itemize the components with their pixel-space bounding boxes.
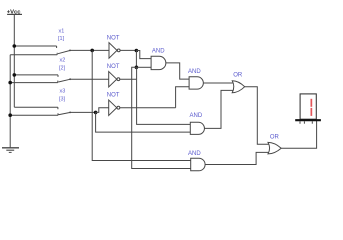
switch x2 blade [58, 79, 70, 82]
switch x1 label [58, 29, 65, 42]
svg-text:[1]: [1] [58, 36, 65, 42]
wire NOT2 node to AND1 input B [136, 66, 151, 68]
node x3 pole junction [94, 111, 98, 115]
switch x2 label [59, 58, 66, 72]
svg-text:x3: x3 [60, 89, 66, 95]
wire x3 jog to NOT3 input [96, 108, 109, 113]
OR gate U8 [232, 81, 245, 93]
svg-text:x1: x1 [59, 29, 65, 35]
AND gate U6 label [190, 113, 203, 119]
AND gate U5 [189, 77, 203, 89]
node NOT1 output junction [135, 49, 139, 53]
NOT gate U3 label [107, 93, 120, 99]
wire switch x2 pole to NOT2 input [70, 78, 108, 80]
svg-text:OR: OR [270, 134, 280, 140]
svg-text:AND: AND [188, 69, 201, 75]
svg-text:[2]: [2] [59, 66, 66, 72]
AND gate U5 label [188, 69, 201, 75]
node gnd-x2 junction [8, 81, 12, 85]
svg-text:NOT: NOT [107, 64, 120, 70]
wire AND2 output to OR1 input A [203, 82, 233, 84]
switch x2 top throw tick [57, 75, 59, 77]
AND gate U7 label [188, 151, 201, 157]
wire x3 drop to AND3 input B [96, 112, 191, 132]
probe pin tick 3 [311, 121, 313, 123]
svg-text:NOT: NOT [107, 35, 120, 41]
wire NOT3 output to riser [120, 107, 176, 109]
switch x2 top throw wire [14, 74, 58, 76]
switch x1 blade [58, 50, 70, 53]
svg-text:x2: x2 [60, 58, 66, 64]
svg-text:[3]: [3] [59, 97, 66, 103]
switch x3 top throw wire [14, 106, 58, 108]
probe pin tick 1 [299, 121, 301, 123]
switch x1 bottom throw tick [56, 53, 58, 55]
AND gate U6 [190, 122, 204, 134]
wire NOT1 jog to AND1 input A [136, 51, 151, 59]
node NOT2 fanout junction [135, 66, 139, 70]
switch x2 bottom throw tick [57, 81, 59, 83]
switch x3 label [59, 89, 66, 103]
wire ground rail vertical [9, 55, 11, 148]
svg-text:AND: AND [152, 49, 165, 55]
switch x3 blade pivot [69, 112, 71, 114]
probe red text [311, 99, 313, 116]
power +Vcc label [7, 10, 21, 16]
wire x1 drop to AND4 input A [92, 50, 191, 160]
OR gate U9 label [270, 134, 280, 140]
probe pin tick 2 [303, 121, 305, 123]
wire NOT2 drop to AND3 input A [137, 79, 191, 124]
NOT gate U1 [109, 43, 120, 59]
AND gate U7 [191, 158, 205, 171]
wire NOT1 node to NOT2 node vertical [135, 51, 137, 68]
switch x3 top throw tick [57, 107, 59, 109]
svg-text:NOT: NOT [107, 93, 120, 99]
node Vcc-x2 junction [13, 73, 17, 77]
NOT gate U2 label [107, 64, 120, 70]
switch x2 blade pivot [69, 78, 71, 80]
switch x1 top throw tick [56, 46, 58, 48]
wire NOT2 output [120, 78, 137, 80]
wire AND4 output riser to OR2 input B [205, 152, 268, 164]
switch x2 bottom throw wire [10, 82, 58, 84]
wire NOT3 riser to AND2 input B [176, 87, 190, 108]
ground [2, 148, 19, 153]
wire AND3 output riser to OR1 input B [205, 90, 234, 128]
switch x3 bottom throw tick [57, 113, 59, 115]
wire AND1 output to AND2 input A [166, 63, 189, 79]
OR gate U9 [268, 142, 281, 154]
wire NOT2 riser [136, 67, 138, 79]
wire NOT2 node left arm and drop to AND4 input B [132, 67, 191, 168]
wire OR2 output to probe [281, 121, 316, 148]
svg-text:AND: AND [188, 151, 201, 157]
NOT gate U2 [109, 72, 120, 88]
switch x3 blade [58, 112, 70, 114]
switch x1 bottom throw wire [10, 54, 57, 56]
node gnd-x3 junction [8, 113, 12, 117]
wire Vcc rail vertical [13, 14, 15, 107]
switch x1 top throw wire [14, 45, 56, 47]
wire OR1 output to OR2 input A [245, 87, 269, 145]
power +Vcc bar [7, 13, 22, 15]
node x1 pole junction [90, 49, 94, 53]
svg-text:OR: OR [233, 72, 243, 78]
svg-text:AND: AND [190, 113, 203, 119]
AND gate U4 label [152, 49, 165, 55]
wire NOT1 output [120, 49, 136, 51]
switch x3 bottom throw wire [10, 114, 58, 116]
switch x1 blade pivot [69, 50, 71, 52]
wire switch x3 pole [70, 111, 95, 113]
OR gate U8 label [233, 72, 243, 78]
NOT gate U3 [109, 100, 120, 116]
probe X1 body [300, 94, 316, 119]
AND gate U4 [151, 56, 166, 69]
NOT gate U1 label [107, 35, 120, 41]
wire switch x1 pole to NOT1 input [70, 49, 109, 51]
node Vcc-x1 junction [13, 44, 17, 48]
probe base bar [295, 119, 321, 121]
